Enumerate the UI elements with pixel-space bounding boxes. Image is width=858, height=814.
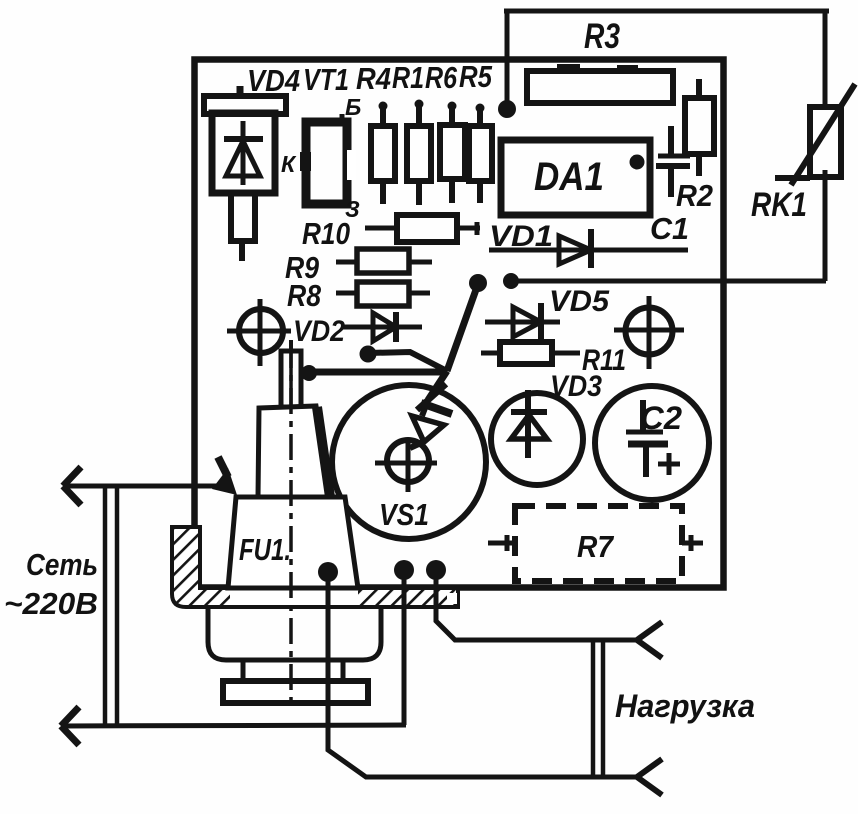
board outline [195, 60, 724, 588]
solder dot c [426, 560, 446, 580]
svg-text:Б: Б [345, 94, 361, 120]
resistor R9 [336, 249, 432, 273]
diode VD2 [341, 312, 422, 342]
svg-text:R6: R6 [425, 60, 458, 95]
thyristor VS1 [332, 385, 486, 539]
resistor R6 [440, 102, 465, 204]
wire stub with dot [360, 346, 448, 372]
svg-text:R5: R5 [459, 59, 493, 94]
arrow to fuse clip [212, 457, 237, 495]
transistor VT1 [300, 114, 356, 204]
fuse body trapezoid [228, 497, 358, 588]
svg-text:VD1: VD1 [489, 220, 553, 253]
svg-text:VD4: VD4 [247, 63, 300, 98]
fuse neck [281, 340, 301, 407]
resistor R7 dashed [488, 506, 703, 581]
svg-text:VD2: VD2 [293, 315, 345, 348]
svg-text:R3: R3 [584, 17, 620, 56]
wire gate bus [511, 279, 826, 284]
svg-text:R8: R8 [287, 278, 322, 313]
svg-text:R4: R4 [356, 61, 391, 96]
arrow mains upper [63, 467, 81, 505]
svg-text:R2: R2 [676, 178, 713, 213]
fuse lower body [208, 608, 381, 703]
wire anode horizontal [301, 365, 447, 381]
resistor R3 [527, 64, 673, 103]
svg-text:Нагрузка: Нагрузка [615, 688, 755, 724]
resistor R10 [365, 215, 480, 242]
solder dot a [318, 562, 338, 582]
mains pair vertical [103, 486, 108, 726]
mains wire upper [63, 484, 229, 489]
svg-text:R10: R10 [302, 216, 350, 251]
resistor R1 [407, 100, 431, 206]
svg-text:FU1.: FU1. [239, 532, 291, 567]
fuse clip upper [258, 406, 330, 497]
svg-text:R7: R7 [577, 529, 615, 564]
resistor R4 [371, 102, 395, 205]
svg-text:Сеть: Сеть [26, 547, 98, 582]
wire below RK1 [823, 170, 828, 281]
mount hole right [614, 296, 684, 369]
solder dot b [394, 560, 414, 580]
arrow mains lower [61, 707, 79, 745]
wire from dot a down [328, 582, 604, 777]
resistor R8 [336, 282, 430, 306]
node dot bus [503, 273, 519, 289]
svg-text:DA1: DA1 [534, 155, 604, 199]
capacitor C1 [656, 126, 690, 197]
resistor R11 [481, 342, 580, 364]
label mains [4, 547, 98, 621]
wire from dot c down [436, 580, 637, 640]
label row VD4 VT1 R4 R1 R6 R5 [247, 59, 493, 98]
wire from dot b down [402, 580, 407, 725]
diode VD5 [485, 303, 560, 344]
node junction dot [498, 100, 516, 118]
svg-text:C1: C1 [650, 211, 689, 246]
load cable pair [591, 640, 596, 777]
thyristor symbol [410, 384, 452, 448]
diode VD4 [204, 86, 286, 261]
wire right drop [823, 11, 828, 108]
svg-text:C2: C2 [640, 400, 682, 436]
node dot gate [469, 274, 487, 292]
svg-text:VT1: VT1 [303, 62, 349, 97]
svg-text:VS1: VS1 [379, 497, 429, 532]
wire gate slant [447, 284, 478, 371]
arrow load upper [637, 622, 662, 658]
diode VD1 [489, 229, 688, 268]
capacitor C2 [595, 386, 709, 500]
IC DA1 [501, 140, 650, 215]
svg-text:К: К [281, 151, 297, 177]
wire outer loop top [504, 9, 829, 14]
svg-text:VD5: VD5 [549, 285, 610, 318]
thermistor RK1 [775, 84, 855, 185]
arrow load lower [637, 759, 662, 795]
svg-text:R1: R1 [392, 60, 424, 95]
chassis bar hatched [172, 527, 458, 607]
svg-text:~220В: ~220В [4, 586, 98, 621]
resistor R2 [685, 79, 714, 176]
wire left drop to node [505, 11, 510, 105]
wire load lower to arrow [603, 775, 637, 780]
centerline dash-dot [289, 342, 293, 708]
resistor R5 [469, 104, 492, 204]
mount hole left [227, 299, 291, 366]
svg-text:RK1: RK1 [751, 186, 807, 224]
diode VD3 [491, 390, 583, 485]
